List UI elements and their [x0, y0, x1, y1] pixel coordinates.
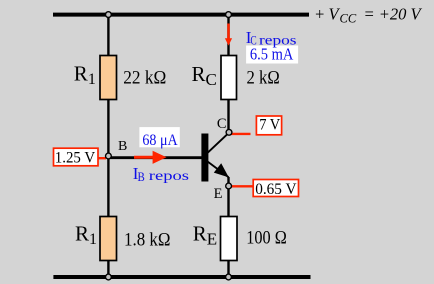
svg-text:1.25 V: 1.25 V	[55, 150, 96, 167]
svg-text:CC: CC	[340, 12, 357, 26]
wire: top rail to RC top (under red arrow)	[227, 15, 229, 56]
transistor Q1 base bar	[201, 134, 208, 182]
transistor Q1 emitter lead	[207, 161, 229, 178]
resistor RE body	[221, 217, 238, 261]
wire: +Vcc top rail	[53, 13, 309, 17]
probe box 7 V	[256, 116, 281, 135]
svg-text:0.65 V: 0.65 V	[255, 181, 297, 198]
svg-text:+: +	[314, 5, 325, 24]
wire: RC bottom to node C	[227, 99, 229, 132]
svg-text:= +20 V: = +20 V	[364, 5, 423, 24]
svg-text:B: B	[138, 169, 146, 184]
label +VCC = +20 V	[314, 5, 423, 26]
svg-text:1.8 kΩ: 1.8 kΩ	[124, 229, 171, 250]
svg-text:repos: repos	[149, 169, 189, 184]
wire: R1 bottom to node B	[107, 99, 109, 156]
white box for 68 uA	[139, 127, 179, 147]
node at bottom rail left	[106, 274, 112, 280]
node E	[226, 183, 232, 189]
transistor Q1 collector lead	[207, 132, 230, 153]
svg-text:2 kΩ: 2 kΩ	[247, 67, 280, 88]
red link to 7 V box	[231, 133, 251, 135]
node C	[226, 129, 232, 135]
svg-text:B: B	[118, 139, 127, 154]
red arrow IC (top)	[227, 24, 230, 40]
wire: ground bottom rail	[53, 275, 310, 279]
node B	[106, 153, 112, 159]
resistor R1 (22 k) body	[100, 56, 117, 100]
svg-text:100 Ω: 100 Ω	[246, 228, 286, 249]
svg-text:22 kΩ: 22 kΩ	[123, 67, 166, 88]
svg-text:E: E	[214, 186, 223, 202]
node at bottom rail right	[226, 274, 232, 280]
wire: R1' bottom to bottom rail	[107, 260, 109, 277]
svg-text:C: C	[217, 116, 227, 132]
node at top rail left	[106, 12, 112, 18]
red link to 1.25 V box	[97, 157, 106, 159]
probe box 0.65 V	[253, 180, 298, 197]
svg-text:7 V: 7 V	[259, 117, 281, 134]
svg-text:6.5 mA: 6.5 mA	[250, 45, 293, 64]
resistor RC body	[221, 56, 237, 100]
svg-text:68 μA: 68 μA	[142, 132, 178, 149]
wire: node E to RE top	[227, 177, 229, 217]
wire: node B to R1' top	[107, 156, 109, 217]
red arrow IB (base)	[134, 156, 154, 159]
transistor Q1 emitter arrow	[214, 163, 229, 177]
white box for 6.5 mA	[246, 46, 298, 64]
resistor R1 (1.8 k) body	[100, 217, 117, 261]
wire: base wire node B to transistor	[108, 156, 202, 159]
red link to 0.65 V box	[231, 185, 254, 187]
wire: top rail to R1 top	[107, 15, 109, 56]
node at top rail right	[226, 12, 232, 18]
wire: RE bottom to bottom rail	[227, 260, 229, 277]
probe box 1.25 V	[54, 148, 99, 166]
